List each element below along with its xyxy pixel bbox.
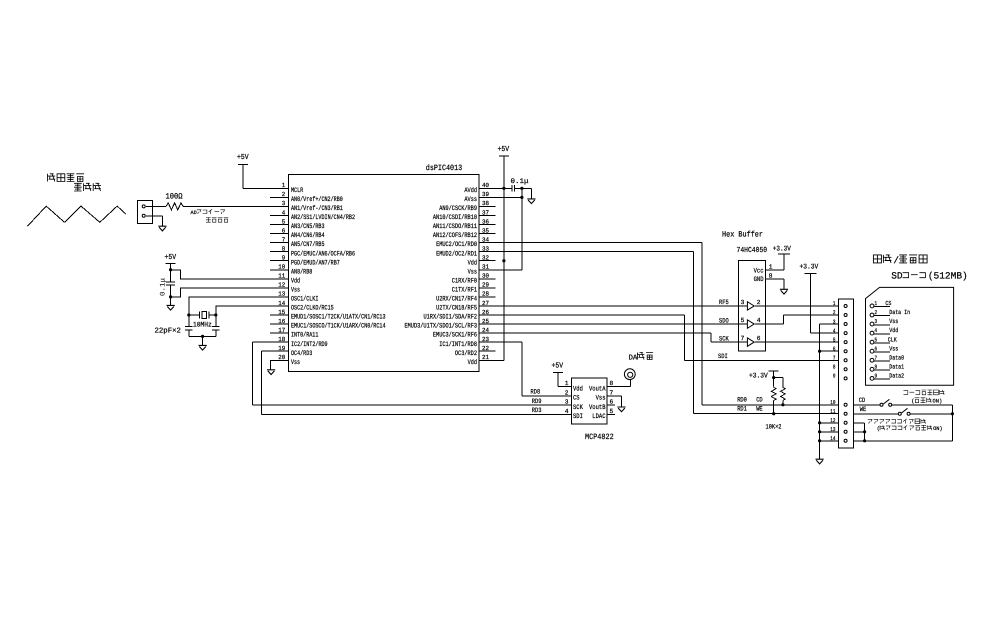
U1 pin 24 stub + label bbox=[433, 327, 495, 340]
svg-text:24: 24 bbox=[482, 327, 489, 334]
U3 pin 2 number+label bbox=[565, 389, 580, 402]
U1 pin 26 stub + label bbox=[424, 309, 496, 322]
wire C4 to ground bbox=[522, 188, 532, 199]
svg-text:17: 17 bbox=[278, 327, 285, 334]
svg-text:13: 13 bbox=[830, 426, 836, 433]
SD card pin 1 CS bbox=[870, 300, 892, 308]
U1 pin 5 stub + label bbox=[270, 218, 325, 231]
svg-text:10K×2: 10K×2 bbox=[766, 423, 782, 430]
svg-text:5: 5 bbox=[741, 317, 745, 324]
node tie pin14 bbox=[863, 439, 866, 442]
svg-text:Vss: Vss bbox=[596, 395, 606, 403]
svg-text:Data0: Data0 bbox=[889, 354, 904, 361]
U1 pin 20 stub + label bbox=[270, 354, 300, 367]
svg-text:C1RX/RF0: C1RX/RF0 bbox=[452, 277, 477, 285]
wire RD3 net: U1 pin19 to MCP SDI bbox=[262, 351, 572, 414]
svg-text:11: 11 bbox=[830, 408, 836, 415]
svg-text:15: 15 bbox=[278, 309, 285, 316]
svg-text:6: 6 bbox=[610, 399, 614, 406]
svg-text:39: 39 bbox=[482, 191, 489, 198]
wire U1 pin20 Vss to ground bbox=[271, 360, 289, 370]
U1 pin 12 stub + label bbox=[270, 282, 300, 295]
svg-text:11: 11 bbox=[278, 273, 285, 280]
svg-text:29: 29 bbox=[482, 282, 489, 289]
svg-text:U1RX/SDI1/SDA/RF2: U1RX/SDI1/SDA/RF2 bbox=[424, 314, 478, 322]
ground below U1 pin20 bbox=[267, 370, 275, 375]
wire SCK net: U1 pin24 to buffer in7 bbox=[495, 333, 738, 342]
node cap ground junction bbox=[201, 335, 204, 338]
ground at C4 bbox=[527, 199, 535, 204]
svg-text:SD: SD bbox=[891, 270, 903, 281]
svg-text:dsPIC4013: dsPIC4013 bbox=[426, 164, 463, 173]
svg-text:1: 1 bbox=[565, 380, 569, 387]
U1 pin 15 stub + label bbox=[270, 309, 386, 322]
node Vdd pin32 bbox=[502, 259, 505, 262]
wire MCP Vss to ground bbox=[607, 396, 621, 407]
svg-text:AN12/COFS/RB12: AN12/COFS/RB12 bbox=[433, 232, 477, 240]
J2 pin 13 circle+number bbox=[830, 426, 847, 433]
svg-text:AN1/Vref-/CN3/RB1: AN1/Vref-/CN3/RB1 bbox=[291, 205, 343, 213]
ground below C1 bbox=[167, 305, 175, 310]
U1 pin 1 stub + label bbox=[270, 182, 303, 195]
J2 pin 7 circle+number bbox=[833, 354, 847, 361]
svg-text:Vss: Vss bbox=[291, 286, 300, 294]
U1 pin 34 stub + label bbox=[436, 236, 495, 249]
svg-text:4: 4 bbox=[833, 327, 836, 334]
capacitor C1 0.1u symbol bbox=[166, 264, 175, 297]
svg-text:36: 36 bbox=[482, 218, 489, 225]
svg-text:U2TX/CN18/RF5: U2TX/CN18/RF5 bbox=[436, 305, 477, 313]
svg-text:Hex Buffer: Hex Buffer bbox=[722, 231, 763, 240]
crystal X1 10MHz bbox=[189, 311, 216, 318]
svg-text:22: 22 bbox=[482, 345, 489, 352]
svg-text:PGD/EMUD/AN7/RB7: PGD/EMUD/AN7/RB7 bbox=[291, 259, 340, 267]
SD card pin 4 Vdd bbox=[870, 327, 898, 335]
node AVdd pin40 bbox=[502, 187, 505, 190]
wire R1 to U1 pin3 bbox=[183, 205, 288, 207]
wire chain bottom row14 bbox=[865, 440, 953, 442]
svg-text:+3.3V: +3.3V bbox=[749, 372, 768, 380]
svg-text:VoutB: VoutB bbox=[589, 404, 606, 412]
svg-text:C1TX/RF1: C1TX/RF1 bbox=[452, 286, 477, 294]
capacitor C2 22pF left bbox=[185, 315, 193, 336]
svg-text:25: 25 bbox=[482, 318, 489, 325]
switch SW1 card-detect bbox=[853, 399, 891, 406]
svg-text:OC4/RD3: OC4/RD3 bbox=[291, 350, 312, 358]
power +5V (AVdd) bbox=[498, 146, 510, 156]
svg-text:ON): ON) bbox=[933, 399, 943, 405]
svg-text:EMUC2/OC1/RD0: EMUC2/OC1/RD0 bbox=[436, 241, 477, 249]
wire C1 top to U1 pin11 bbox=[171, 270, 289, 279]
U1 pin 39 stub + label bbox=[464, 191, 495, 204]
svg-text:8: 8 bbox=[875, 363, 878, 370]
svg-text:Vss: Vss bbox=[889, 318, 898, 325]
J2 pin 9 circle+number bbox=[833, 373, 847, 380]
U1 pin 27 stub + label bbox=[436, 300, 495, 313]
svg-text:Data1: Data1 bbox=[889, 363, 904, 370]
node crystal left bbox=[187, 313, 190, 316]
node rail pin14 bbox=[818, 439, 821, 442]
svg-text:EMUD1/SOSC1/T2CK/U1ATX/CN1/RC1: EMUD1/SOSC1/T2CK/U1ATX/CN1/RC13 bbox=[291, 314, 386, 322]
svg-text:23: 23 bbox=[482, 336, 489, 343]
svg-text:3: 3 bbox=[282, 200, 286, 207]
svg-text:7: 7 bbox=[833, 354, 836, 361]
label SDカード (512MB) bbox=[891, 270, 968, 281]
svg-text:(: ( bbox=[911, 399, 914, 405]
wire +5V to U1 pin1 bbox=[243, 164, 288, 188]
svg-text:2: 2 bbox=[833, 309, 836, 316]
power +3.3V (buffer) bbox=[773, 246, 792, 270]
svg-text:EMUD2/OC2/RD1: EMUD2/OC2/RD1 bbox=[436, 250, 477, 258]
op IC U1 dsPIC4013 body bbox=[288, 174, 479, 371]
node rail pin13 bbox=[818, 430, 821, 433]
svg-text:38: 38 bbox=[482, 200, 489, 207]
svg-text:7: 7 bbox=[282, 236, 286, 243]
svg-text:RD9: RD9 bbox=[532, 398, 542, 405]
svg-text:EMUC3/SCK1/RF6: EMUC3/SCK1/RF6 bbox=[433, 332, 477, 340]
svg-text:1: 1 bbox=[833, 300, 836, 307]
svg-text:Vdd: Vdd bbox=[291, 277, 300, 285]
power +5V (MCP4822) bbox=[552, 363, 564, 373]
J2 pin 14 circle+number bbox=[830, 435, 847, 442]
svg-text:3: 3 bbox=[565, 399, 569, 406]
svg-text:(: ( bbox=[877, 426, 880, 432]
node pull-up top bbox=[772, 376, 775, 379]
svg-text:9: 9 bbox=[282, 255, 286, 262]
svg-text:Data In: Data In bbox=[889, 309, 910, 316]
wire RD9 net: U1 pin18 to MCP SCK bbox=[252, 342, 571, 405]
J2 pin 8 circle+number bbox=[833, 364, 847, 371]
svg-text:0.1μ: 0.1μ bbox=[511, 178, 529, 186]
svg-text:CS: CS bbox=[573, 395, 580, 403]
svg-text:AVdd: AVdd bbox=[464, 187, 477, 195]
svg-text:Vss: Vss bbox=[291, 359, 300, 367]
U1 pin 23 stub + label bbox=[439, 336, 495, 349]
svg-text:Vdd: Vdd bbox=[889, 327, 898, 334]
U1 pin 9 stub + label bbox=[270, 255, 340, 268]
U1 pin 31 stub + label bbox=[468, 264, 496, 277]
U1 pin 37 stub + label bbox=[433, 209, 495, 222]
U3 pin 5 stub+number+label bbox=[592, 408, 615, 421]
svg-text:7: 7 bbox=[741, 335, 745, 342]
U1 pin 6 stub + label bbox=[270, 227, 325, 240]
svg-text:10: 10 bbox=[830, 399, 836, 406]
svg-text:27: 27 bbox=[482, 300, 489, 307]
U1 pin 19 stub + label bbox=[270, 345, 312, 358]
J2 pin 1 circle+number bbox=[833, 300, 847, 307]
svg-text:0.1μ: 0.1μ bbox=[160, 278, 168, 296]
capacitor C3 22pF right bbox=[212, 315, 220, 336]
svg-text:8: 8 bbox=[833, 364, 836, 371]
U3 pin 6 stub+number+label bbox=[589, 399, 615, 412]
svg-text:+5V: +5V bbox=[498, 146, 510, 154]
wire CD switch to chain bbox=[892, 405, 953, 441]
wire U1 pin14 OSC2 to crystal bbox=[216, 306, 288, 315]
J2 pin 10 circle+number bbox=[830, 399, 847, 406]
svg-text:AN8/RB8: AN8/RB8 bbox=[291, 268, 312, 276]
wire AVss rail pin39 to pin31 bbox=[479, 188, 522, 269]
node Vdd tap (pin11) bbox=[169, 268, 172, 271]
svg-text:6: 6 bbox=[833, 345, 836, 352]
svg-text:Vdd: Vdd bbox=[468, 259, 477, 267]
U1 pin 22 stub + label bbox=[455, 345, 496, 358]
svg-text:6: 6 bbox=[875, 345, 878, 352]
svg-text:32: 32 bbox=[482, 255, 489, 262]
wire C1 bottom to ground bbox=[170, 297, 172, 306]
wire SDI net: U1 pin26 to connector pin7 bbox=[495, 315, 838, 360]
node C4 right bbox=[520, 187, 523, 190]
U1 pin 21 stub + label bbox=[468, 354, 496, 367]
U1 pin 2 stub + label bbox=[270, 191, 343, 204]
U1 pin 7 stub + label bbox=[270, 236, 325, 249]
svg-text:4: 4 bbox=[282, 209, 286, 216]
U1 pin 11 stub + label bbox=[270, 273, 300, 286]
U1 pin 35 stub + label bbox=[433, 227, 495, 240]
svg-text:Vdd: Vdd bbox=[573, 385, 583, 393]
svg-text:9: 9 bbox=[875, 372, 878, 379]
U3 pin 1 number+label bbox=[565, 380, 583, 393]
svg-text:2: 2 bbox=[757, 299, 761, 306]
svg-text:2: 2 bbox=[565, 389, 569, 396]
svg-text:MCLR: MCLR bbox=[291, 187, 303, 195]
connector J1 input (2-pin) bbox=[138, 200, 153, 223]
triangle waveform symbol bbox=[28, 206, 127, 226]
label ライトプロテクト検出 bbox=[868, 419, 926, 424]
wire MCP VoutA to DA connector bbox=[607, 380, 630, 387]
U1 pin 25 stub + label bbox=[405, 318, 496, 331]
resistor R3 10K (CD pull-up) bbox=[774, 378, 786, 405]
wire J1 pin2 to ground bbox=[146, 216, 163, 226]
svg-text:+5V: +5V bbox=[165, 254, 177, 262]
U1 pin 8 stub + label bbox=[270, 245, 355, 258]
ground below connector rail bbox=[816, 459, 824, 464]
svg-text:SDI: SDI bbox=[573, 413, 583, 421]
wire U1 pin13 OSC1 to crystal bbox=[189, 297, 288, 315]
svg-text:EMUD3/U1TX/SDO1/SCL/RF3: EMUD3/U1TX/SDO1/SCL/RF3 bbox=[405, 323, 478, 331]
J2 pin 12 circle+number bbox=[830, 417, 847, 424]
U1 pin 10 stub + label bbox=[270, 264, 312, 277]
svg-text:6: 6 bbox=[282, 227, 286, 234]
J2 pin 6 circle+number bbox=[833, 345, 847, 352]
node AVss pin39 bbox=[520, 196, 523, 199]
U2 Vcc pin1 label bbox=[754, 264, 784, 276]
svg-text:WE: WE bbox=[860, 406, 867, 413]
label 三角波 (triangle wave) bbox=[74, 183, 101, 191]
svg-text:34: 34 bbox=[482, 236, 489, 243]
svg-text:OC3/RD2: OC3/RD2 bbox=[455, 350, 477, 358]
wire buffer out2 to connector pin1 bbox=[765, 305, 838, 307]
svg-text:2: 2 bbox=[875, 309, 878, 316]
svg-text:AN4/CN6/RB4: AN4/CN6/RB4 bbox=[291, 232, 325, 240]
svg-text:CD: CD bbox=[756, 396, 763, 403]
svg-text:33: 33 bbox=[482, 245, 489, 252]
buffer element in7/out6 bbox=[739, 335, 766, 346]
svg-text:ON): ON) bbox=[933, 426, 943, 432]
svg-text:35: 35 bbox=[482, 227, 489, 234]
svg-text:9: 9 bbox=[833, 373, 836, 380]
node tie pin13 bbox=[863, 430, 866, 433]
svg-text:AD: AD bbox=[191, 210, 197, 216]
wire +5V to MCP pin1 bbox=[558, 373, 571, 387]
SD card pin 6 Vss bbox=[870, 345, 898, 353]
svg-text:AN2/SS1/LVDIN/CN4/RB2: AN2/SS1/LVDIN/CN4/RB2 bbox=[291, 214, 355, 222]
wire C1 bottom to U1 pin12 bbox=[171, 288, 289, 297]
U1 pin 32 stub + label bbox=[468, 255, 496, 268]
svg-text:U2RX/CN17/RF4: U2RX/CN17/RF4 bbox=[436, 296, 477, 304]
svg-text:INT0/RA11: INT0/RA11 bbox=[291, 332, 318, 340]
svg-text:5: 5 bbox=[282, 218, 286, 225]
resistor R2 10K (WE pull-up) bbox=[771, 378, 776, 414]
svg-text:74HC4050: 74HC4050 bbox=[737, 246, 768, 255]
svg-text:WE: WE bbox=[756, 406, 763, 413]
svg-text:AN3/CN5/RB3: AN3/CN5/RB3 bbox=[291, 223, 325, 231]
capacitor C4 0.1u at AVdd bbox=[495, 185, 522, 192]
U1 pin 29 stub + label bbox=[452, 282, 496, 295]
power +3.3V (pull-ups) bbox=[749, 371, 779, 380]
svg-text:7: 7 bbox=[610, 389, 614, 396]
svg-text:/: / bbox=[893, 255, 899, 266]
svg-text:5: 5 bbox=[833, 336, 836, 343]
svg-text:5: 5 bbox=[875, 336, 878, 343]
svg-text:RF5: RF5 bbox=[719, 299, 729, 306]
SD card pin 9 Data2 bbox=[870, 372, 904, 380]
svg-text:37: 37 bbox=[482, 209, 489, 216]
U3 pin 4 number+label bbox=[565, 408, 583, 421]
resistor R1 100Ω bbox=[146, 203, 270, 210]
node CD pull-up junction bbox=[781, 403, 784, 406]
svg-text:40: 40 bbox=[482, 182, 489, 189]
wire RF5 net: U1 pin27 to buffer in3 bbox=[495, 305, 738, 307]
svg-text:+3.3V: +3.3V bbox=[800, 264, 819, 272]
svg-text:3: 3 bbox=[741, 299, 745, 306]
svg-text:IC1/INT1/RD8: IC1/INT1/RD8 bbox=[439, 341, 477, 349]
U1 pin 13 stub + label bbox=[270, 291, 318, 304]
U2 GND pin8 label bbox=[754, 273, 784, 290]
U3 pin 3 number+label bbox=[565, 399, 584, 412]
svg-text:100Ω: 100Ω bbox=[166, 192, 183, 201]
op IC U3 MCP4822 body bbox=[571, 378, 607, 424]
svg-text:Vss: Vss bbox=[468, 268, 477, 276]
U1 pin 30 stub + label bbox=[452, 273, 496, 286]
svg-text:5: 5 bbox=[610, 408, 614, 415]
node Vss tap (pin12) bbox=[169, 295, 172, 298]
svg-text:6: 6 bbox=[757, 335, 761, 342]
svg-text:(512MB): (512MB) bbox=[928, 270, 968, 281]
U1 pin 38 stub + label bbox=[439, 200, 495, 213]
svg-text:8: 8 bbox=[282, 245, 286, 252]
U1 pin 16 stub + label bbox=[270, 318, 386, 331]
svg-text:AVss: AVss bbox=[464, 196, 477, 204]
svg-text:GND: GND bbox=[754, 276, 764, 284]
svg-text:SCK: SCK bbox=[573, 404, 584, 412]
svg-text:8: 8 bbox=[610, 380, 614, 387]
wire RD8 net: U1 pin23 to MCP CS bbox=[495, 342, 571, 396]
U1 pin 18 stub + label bbox=[270, 336, 328, 349]
svg-text:1: 1 bbox=[282, 182, 286, 189]
wire buffer out6 to connector pin5 bbox=[765, 341, 838, 343]
label (挿入時ON) bbox=[911, 398, 942, 405]
wire Vss rail connector pins 3/6/12/13/14 bbox=[820, 324, 839, 459]
svg-text:CS: CS bbox=[885, 300, 891, 307]
svg-text:PGC/EMUC/AN6/OCFA/RB6: PGC/EMUC/AN6/OCFA/RB6 bbox=[291, 250, 355, 258]
J2 pin 11 circle+number bbox=[830, 408, 847, 415]
wire cap commons bbox=[189, 335, 216, 337]
svg-text:16: 16 bbox=[278, 318, 285, 325]
SD card pin 7 Data0 bbox=[870, 354, 904, 362]
svg-text:SDO: SDO bbox=[719, 317, 729, 324]
wire RD1 net: U1 pin33 to WE row bbox=[495, 252, 838, 414]
svg-text:SDI: SDI bbox=[718, 353, 728, 360]
node WE pull-up junction bbox=[772, 412, 775, 415]
svg-text:+3.3V: +3.3V bbox=[773, 246, 792, 254]
label (未プロテクト挿入時ON) bbox=[877, 425, 943, 432]
SD card pin 5 CLK bbox=[870, 336, 897, 344]
svg-text:OSC1/CLKI: OSC1/CLKI bbox=[291, 296, 318, 304]
wire +3.3V to connector pin4 bbox=[810, 274, 838, 334]
power +5V (MCLR pull) bbox=[237, 154, 249, 164]
svg-text:RD0: RD0 bbox=[737, 396, 747, 403]
wire right-side pins 12/13/14 tie bbox=[853, 423, 864, 441]
power +3.3V (SD Vdd) bbox=[800, 264, 819, 274]
J2 pin 5 circle+number bbox=[833, 336, 847, 343]
svg-text:12: 12 bbox=[278, 282, 285, 289]
svg-text:CD: CD bbox=[859, 397, 866, 404]
svg-text:13: 13 bbox=[278, 291, 285, 298]
ground at buffer pin8 bbox=[780, 289, 788, 294]
U3 pin 8 stub+number+label bbox=[589, 380, 615, 393]
svg-text:Vcc: Vcc bbox=[754, 267, 764, 275]
J2 pin 2 circle+number bbox=[833, 309, 847, 316]
svg-text:28: 28 bbox=[482, 291, 489, 298]
U3 pin 7 stub+number+label bbox=[596, 389, 615, 402]
U1 pin 28 stub + label bbox=[436, 291, 495, 304]
svg-text:3: 3 bbox=[875, 318, 878, 325]
SD card pin 2 Data In bbox=[870, 309, 910, 317]
svg-text:3: 3 bbox=[833, 318, 836, 325]
svg-text:AN9/CSCK/RB9: AN9/CSCK/RB9 bbox=[439, 205, 477, 213]
SD card outline bbox=[866, 287, 954, 385]
label 外部信号 (external signal) bbox=[48, 174, 85, 182]
svg-text:10: 10 bbox=[278, 264, 285, 271]
svg-text:IC2/INT2/RD9: IC2/INT2/RD9 bbox=[291, 341, 328, 349]
svg-text:10MHz: 10MHz bbox=[193, 321, 212, 329]
svg-text:Vss: Vss bbox=[889, 345, 898, 352]
svg-text:7: 7 bbox=[875, 354, 878, 361]
buffer element in3/out2 bbox=[739, 299, 766, 310]
U1 pin 4 stub + label bbox=[270, 209, 355, 222]
U1 pin 40 stub + label bbox=[464, 182, 495, 195]
U1 pin 33 stub + label bbox=[436, 245, 495, 258]
svg-text:AN11/CSDO/RB11: AN11/CSDO/RB11 bbox=[433, 223, 477, 231]
svg-text:+5V: +5V bbox=[552, 363, 564, 371]
SD card pin 3 Vss bbox=[870, 318, 898, 326]
ground at MCP Vss bbox=[617, 407, 625, 412]
wire to ground below crystal bbox=[202, 336, 204, 345]
connector J2 SD socket body bbox=[838, 299, 853, 448]
node crystal right bbox=[214, 313, 217, 316]
svg-text:RD1: RD1 bbox=[737, 406, 747, 413]
wire +5V rail pin40/pin32/pin21 bbox=[479, 156, 504, 360]
U1 pin 36 stub + label bbox=[433, 218, 495, 231]
U1 pin 3 stub + label bbox=[270, 200, 343, 213]
wire buffer out4 to connector pin2 bbox=[765, 315, 838, 324]
ground below J1 bbox=[158, 226, 166, 231]
wire SDO net: U1 pin25 to buffer in5 bbox=[495, 323, 738, 325]
ground below crystal bbox=[199, 345, 207, 350]
svg-text:VoutA: VoutA bbox=[589, 385, 606, 393]
U1 pin 17 stub + label bbox=[270, 327, 318, 340]
node rail pin6 bbox=[818, 350, 821, 353]
